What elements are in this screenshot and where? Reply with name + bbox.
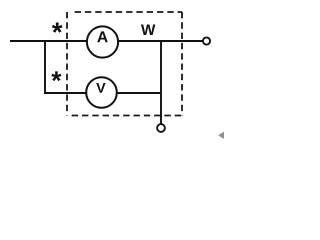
wire: left vertical branch to voltmeter: [45, 41, 87, 93]
label W (wattmeter): [141, 25, 155, 35]
polarity mark * (voltage coil): [51, 71, 61, 81]
wire: voltmeter to right vertical branch: [117, 92, 161, 94]
terminal: right output: [203, 37, 210, 44]
ammeter U1 (A): [87, 26, 118, 57]
wire: right vertical branch: [160, 41, 162, 124]
terminal: bottom output: [157, 124, 165, 132]
wire: ammeter to right terminal: [118, 40, 203, 42]
polarity mark * (ammeter current coil): [52, 23, 63, 33]
wire: left input lead: [10, 40, 88, 42]
voltmeter U2 (V): [86, 77, 117, 108]
cursor artifact (gray triangle, bottom-right corner): [218, 132, 224, 139]
dashed boundary box (wattmeter outline): [67, 12, 182, 116]
